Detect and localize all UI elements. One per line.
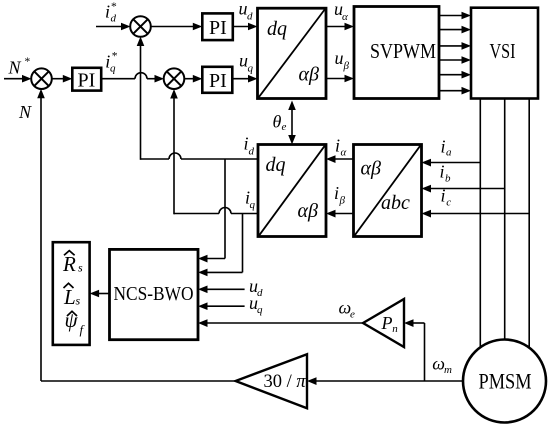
svg-text:c: c (446, 196, 451, 208)
summing junction S1 (130, 16, 151, 37)
wire S3 to PI3 (184, 75, 202, 83)
svg-text:αβ: αβ (361, 158, 381, 180)
wire PI2 to S3 with hop (i_q*) (101, 73, 164, 83)
svg-text:i: i (334, 183, 339, 203)
svg-text:P: P (381, 313, 393, 333)
svg-text:N: N (18, 102, 32, 122)
wire i_a tap (422, 159, 481, 167)
svg-text:L: L (63, 285, 76, 309)
svg-text:a: a (446, 147, 452, 159)
svg-text:u: u (335, 48, 344, 68)
svg-text:PMSM: PMSM (479, 369, 532, 394)
wire NCS-BWO to parameter box (90, 290, 110, 298)
svg-text:dq: dq (267, 18, 287, 40)
svg-text:*: * (111, 1, 117, 13)
svg-text:abc: abc (381, 192, 410, 214)
svg-text:m: m (444, 364, 452, 376)
wire S1 to PI1 (151, 23, 203, 31)
block parameter outputs (53, 242, 90, 345)
summing junction S2 (31, 68, 52, 89)
gain block Pn (363, 299, 404, 347)
wire u_d stub into NCS-BWO (198, 286, 245, 294)
svg-text:s: s (76, 294, 81, 308)
wire phase b from VSI (504, 99, 506, 340)
svg-text:β: β (339, 195, 346, 207)
motor PMSM (463, 340, 546, 423)
wire phase a from VSI (479, 99, 481, 348)
wire omega_m branch up into Pn (404, 319, 425, 381)
svg-text:β: β (343, 60, 350, 72)
wire i_d feedback to S1 with hop (137, 37, 258, 160)
svg-text:q: q (257, 304, 263, 316)
wire i_d* input (96, 23, 131, 31)
svg-text:n: n (392, 323, 398, 335)
wire PI1 to dq (u_d) (233, 23, 258, 31)
svg-text:VSI: VSI (490, 39, 516, 63)
svg-text:q: q (248, 63, 254, 75)
wire theta_e double arrow (288, 101, 296, 145)
svg-text:q: q (250, 199, 256, 211)
svg-text:d: d (247, 11, 253, 23)
svg-text:*: * (25, 56, 31, 68)
svg-text:PI: PI (78, 70, 96, 92)
svg-text:SVPWM: SVPWM (370, 39, 436, 63)
wire i_beta (326, 210, 354, 218)
block NCS-BWO (110, 249, 199, 339)
svg-text:αβ: αβ (298, 200, 318, 222)
PI block PI3 (202, 67, 232, 93)
svg-text:d: d (249, 146, 255, 158)
wire omega_e from Pn to NCS-BWO (198, 319, 363, 327)
svg-text:PI: PI (209, 70, 227, 92)
svg-text:N: N (8, 57, 22, 77)
svg-text:i: i (441, 186, 446, 206)
svg-text:d: d (111, 13, 117, 25)
PI block PI2 (72, 68, 101, 91)
wire phase c from VSI (528, 99, 530, 348)
svg-text:i: i (440, 161, 445, 181)
svg-text:NCS-BWO: NCS-BWO (114, 283, 194, 305)
wire omega_m from PMSM to 30/pi (307, 377, 463, 385)
svg-text:i: i (441, 136, 446, 156)
wire i_alpha (326, 155, 354, 163)
wire i_q branch to NCS-BWO (198, 214, 243, 277)
block dq/ab bottom U2 (258, 145, 326, 237)
wire i_c tap (422, 210, 530, 218)
svg-text:α: α (342, 11, 348, 23)
svg-text:dq: dq (266, 154, 286, 176)
svg-text:b: b (445, 172, 451, 184)
svg-text:i: i (105, 2, 110, 22)
svg-text:θ: θ (273, 112, 282, 132)
svg-text:q: q (110, 63, 116, 75)
wire u_q stub into NCS-BWO (198, 302, 245, 310)
wire i_d branch to NCS-BWO (198, 159, 225, 263)
svg-text:i: i (335, 136, 340, 156)
block dq/ab top U1 (258, 8, 327, 98)
wire PI3 to dq (u_q) (232, 75, 257, 83)
svg-text:30 / π: 30 / π (264, 372, 307, 392)
wire u_beta (326, 75, 354, 83)
block VSI (471, 8, 538, 99)
wire i_q feedback to S3 with hop (170, 89, 258, 214)
wire u_alpha (326, 23, 354, 31)
wires SVPWM to VSI (6 gate arrows) (439, 12, 471, 95)
svg-text:*: * (112, 50, 118, 62)
PI block PI1 (202, 13, 233, 40)
summing junction S3 (164, 68, 185, 89)
svg-text:αβ: αβ (299, 64, 319, 86)
wire speed feedback 30/pi to S2 (37, 89, 235, 381)
wire S2 to PI2 (52, 75, 73, 83)
block SVPWM (354, 7, 439, 99)
svg-text:PI: PI (209, 17, 227, 39)
svg-text:α: α (341, 146, 347, 158)
block ab/abc U3 (354, 145, 422, 237)
wire N* input (4, 75, 32, 83)
svg-text:e: e (350, 308, 355, 320)
svg-text:e: e (282, 121, 287, 133)
svg-text:s: s (78, 261, 83, 275)
gain block 30/pi (236, 354, 307, 408)
wire i_b tap (422, 185, 505, 193)
